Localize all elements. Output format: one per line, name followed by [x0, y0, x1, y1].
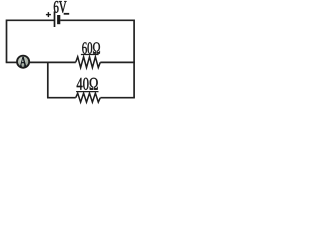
battery B1 negative plate (short thick) [57, 15, 60, 24]
battery plus sign label [46, 12, 51, 17]
resistor R1 value label 60 ohm [82, 42, 100, 53]
wire middle left (corner to ammeter) [6, 61, 17, 63]
resistor R2 label underline [76, 91, 98, 93]
resistor R2 40 ohm zigzag [76, 93, 101, 102]
wire top-right (battery negative to top-right corner) [60, 19, 134, 21]
wire bottom (junction to 40 ohm resistor) [47, 97, 76, 99]
wire right vertical [133, 20, 135, 98]
wire middle right (60 ohm resistor to right wire) [100, 61, 135, 63]
battery value label 6V [54, 1, 67, 13]
wire left vertical [6, 20, 8, 63]
wire bottom right (40 ohm resistor to right wire) [100, 97, 134, 99]
resistor R1 label underline [81, 54, 99, 56]
battery B1 positive plate (long thin) [54, 11, 56, 27]
ammeter letter A [20, 57, 27, 66]
ammeter A1 body circle [17, 56, 29, 68]
battery minus sign label [64, 13, 69, 15]
wire junction vertical drop [47, 62, 49, 97]
wire middle (ammeter to 60 ohm resistor) [30, 61, 76, 63]
wire top-left (battery positive to top-left corner) [7, 19, 55, 21]
resistor R1 60 ohm zigzag [76, 57, 101, 68]
resistor R2 value label 40 ohm [77, 78, 98, 90]
